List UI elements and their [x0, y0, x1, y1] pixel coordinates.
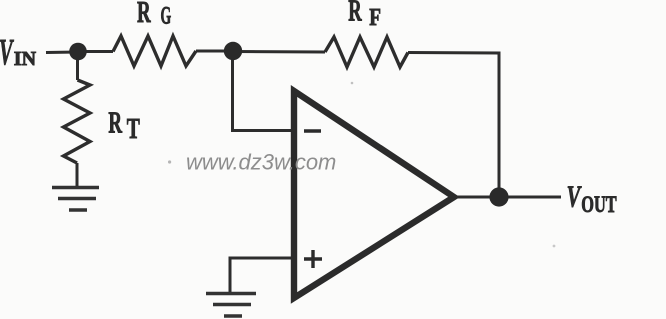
wire node B down to inverting input	[233, 51, 293, 131]
node B junction dot	[224, 42, 242, 60]
speck below RF	[351, 82, 354, 85]
op-amp noninverting input plus sign	[304, 250, 322, 268]
speck right side	[553, 245, 556, 248]
svg-text:V: V	[0, 32, 14, 73]
op-amp U1 triangle	[294, 91, 454, 298]
svg-text:R: R	[137, 0, 151, 29]
svg-text:R: R	[108, 105, 122, 140]
label RF (resistor RF value)	[348, 0, 381, 31]
resistor RF	[325, 37, 408, 67]
svg-text:IN: IN	[14, 48, 37, 70]
wire node A down to resistor RT	[76, 52, 79, 80]
wire RF to top-right corner and down to output node	[408, 53, 499, 191]
resistor RG	[113, 36, 196, 66]
wire output: op-amp to VOUT	[454, 196, 561, 199]
wire noninverting input to ground stub	[230, 258, 292, 293]
wire RG to node B	[196, 50, 233, 53]
svg-text:www.dz3w.com: www.dz3w.com	[186, 149, 336, 174]
wire RT to ground	[76, 163, 79, 187]
svg-text:OUT: OUT	[581, 192, 617, 218]
svg-text:F: F	[369, 4, 381, 31]
wire node B to RF	[233, 50, 325, 54]
node A junction dot	[69, 43, 87, 61]
label RG (resistor RG value)	[137, 0, 171, 30]
svg-text:R: R	[348, 0, 362, 28]
svg-text:V: V	[567, 179, 583, 213]
svg-text:T: T	[127, 114, 140, 145]
label VIN	[0, 32, 37, 73]
ground G2 (noninverting input)	[206, 294, 256, 317]
speck near watermark	[168, 160, 171, 163]
node VOUT junction dot	[489, 187, 508, 206]
wire node A to RG	[78, 50, 113, 53]
resistor RT	[64, 80, 91, 163]
wire VIN to node A	[46, 51, 78, 55]
ground G1 (below RT)	[52, 188, 99, 211]
op-amp inverting input minus sign	[304, 129, 321, 132]
label VOUT	[567, 179, 617, 217]
svg-text:G: G	[161, 3, 172, 30]
label RT (resistor RT value)	[108, 105, 139, 145]
